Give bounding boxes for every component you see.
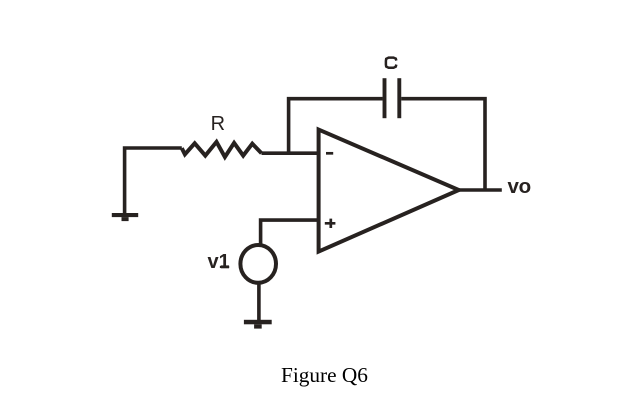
wire: capacitor right plate to feedback corner and down to output (401, 99, 485, 190)
op-amp plus sign (325, 219, 336, 228)
wire: feedback tap riser from inverting node up (289, 99, 383, 154)
svg-text:R: R (211, 113, 225, 135)
wire: source bottom to ground (257, 283, 261, 320)
wire: resistor to op-amp inverting input (262, 151, 320, 155)
wire: op-amp output to vo (459, 188, 502, 192)
svg-text:Figure Q6: Figure Q6 (281, 363, 368, 387)
capacitor C plates (385, 78, 400, 118)
ground (left) (112, 213, 138, 221)
svg-text:v1: v1 (208, 251, 230, 273)
op-amp U1 triangle (319, 130, 459, 252)
resistor R (182, 142, 262, 157)
svg-text:vo: vo (508, 175, 531, 198)
ground (under v1) (244, 320, 272, 329)
capacitor label C (386, 58, 396, 68)
source v1 circle (240, 245, 276, 283)
op-amp minus sign (326, 152, 333, 155)
wire: non-inverting input run and riser down to source (261, 220, 319, 244)
wire: left ground riser and horizontal run to resistor (125, 148, 182, 214)
